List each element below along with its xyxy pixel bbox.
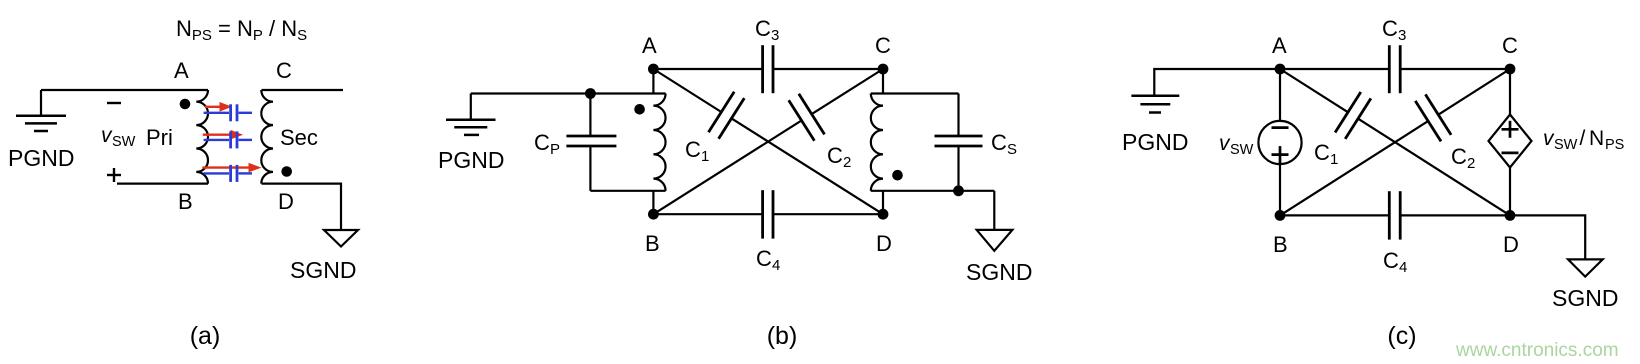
ground PGND (a) (16, 90, 66, 131)
svg-text:SW: SW (112, 134, 136, 150)
svg-text:PGND: PGND (8, 145, 74, 171)
wire C to winding (b) (882, 69, 884, 94)
svg-text:SGND: SGND (966, 259, 1032, 285)
right winding (b) (871, 94, 883, 191)
dependent source diamond (c) (1489, 115, 1532, 168)
svg-text:A: A (174, 58, 189, 83)
label C2 (b) (827, 143, 851, 171)
source minus sign (c) (1272, 126, 1289, 129)
svg-text:C: C (991, 130, 1007, 155)
svg-text:SGND: SGND (290, 257, 356, 283)
ground SGND (c) (1568, 259, 1603, 276)
node D dot (c) (1505, 210, 1516, 221)
svg-text:(c): (c) (1387, 322, 1416, 350)
capacitor C3 (b) (763, 45, 773, 93)
dependent source plus sign (c) (1502, 121, 1519, 138)
wire diagonal B-C with C2 gap (c) (1280, 69, 1510, 215)
label C1 (c) (1314, 140, 1338, 168)
label plus (a) (107, 168, 121, 182)
label CS (991, 130, 1017, 158)
interwinding capacitor 2 (a) (204, 131, 252, 148)
transformer primary winding (196, 90, 208, 184)
wire winding bottom to SGND branch (b) (871, 190, 995, 192)
label NPS = NP / NS (176, 16, 307, 44)
svg-text:NPS = NP / NS: NPS = NP / NS (176, 16, 307, 44)
wire primary bottom stub (117, 183, 208, 185)
wire diagonal A-D with C1 gap (b) (653, 69, 883, 214)
svg-text:www.cntronics.com: www.cntronics.com (1455, 340, 1619, 361)
wire C to dependent source (c) (1509, 69, 1511, 115)
label C3 (c) (1382, 16, 1406, 44)
node B dot (b) (648, 209, 659, 220)
svg-text:D: D (278, 189, 294, 214)
svg-text:1: 1 (701, 148, 709, 165)
wire winding top to CS (b) (871, 92, 959, 94)
svg-text:A: A (1272, 33, 1287, 58)
svg-text:C: C (1382, 16, 1398, 41)
interwinding capacitor 3 (a) (204, 165, 252, 182)
capacitor CS (935, 94, 983, 191)
node B dot (c) (1275, 210, 1286, 221)
svg-text:4: 4 (1399, 259, 1407, 276)
svg-text:B: B (645, 231, 660, 256)
node C dot (b) (878, 64, 889, 75)
wire secondary top stub (262, 89, 344, 91)
svg-text:C: C (756, 246, 772, 271)
wire secondary bottom to SGND (262, 184, 342, 230)
wire D to SGND (c) (1510, 215, 1585, 259)
svg-text:PGND: PGND (1122, 129, 1188, 155)
ground PGND (b) (446, 94, 496, 135)
label vSW (a) (101, 124, 136, 150)
svg-text:3: 3 (771, 27, 779, 44)
svg-text:C: C (755, 16, 771, 41)
label C2 (c) (1451, 144, 1475, 172)
svg-text:2: 2 (1467, 155, 1475, 172)
capacitor C4 (c) (1389, 191, 1400, 239)
svg-text:PS: PS (1605, 137, 1624, 153)
svg-text:Pri: Pri (146, 125, 173, 150)
wire PGND to primary top (41, 89, 208, 91)
wire winding to B (b) (652, 191, 654, 214)
svg-text:S: S (1007, 141, 1017, 158)
svg-text:3: 3 (1398, 27, 1406, 44)
capacitor C1 (c) (1335, 92, 1371, 139)
svg-text:B: B (1273, 232, 1288, 257)
svg-text:(b): (b) (767, 322, 798, 350)
wire A to winding (b) (652, 69, 654, 94)
wire A to PGND (c) (1154, 69, 1280, 96)
svg-text:D: D (1503, 232, 1519, 257)
wire A to source (c) (1279, 69, 1281, 121)
source plus sign (c) (1272, 146, 1289, 163)
wire down to SGND (b) (993, 191, 995, 230)
svg-text:C: C (827, 143, 843, 168)
wire CP bottom to winding (b) (590, 190, 665, 192)
svg-text:D: D (876, 231, 892, 256)
svg-text:B: B (178, 189, 193, 214)
left winding polarity dot (b) (634, 104, 645, 115)
secondary polarity dot (281, 166, 292, 177)
wire top edge A-C with C3 gap (c) (1280, 68, 1510, 70)
wire bottom edge B-D with C4 gap (b) (653, 213, 883, 215)
primary polarity dot (180, 99, 191, 110)
parasitic arrow 1 (a) (205, 102, 232, 112)
wire PGND feed (b) (471, 92, 591, 94)
svg-text:P: P (550, 141, 560, 158)
dependent source minus sign (c) (1502, 152, 1519, 155)
node A dot (b) (648, 64, 659, 75)
svg-text:C: C (875, 33, 891, 58)
label C1 (b) (685, 137, 709, 165)
junction dot CS bottom (b) (953, 185, 964, 196)
right winding polarity dot (b) (892, 170, 903, 181)
svg-text:PGND: PGND (438, 147, 504, 173)
wire junction to winding top (b) (590, 92, 665, 94)
label vSW (c) (1219, 132, 1254, 158)
svg-text:4: 4 (772, 257, 780, 274)
parasitic arrow 2 (a) (203, 130, 243, 140)
svg-text:C: C (1314, 140, 1330, 165)
ground PGND (c) (1131, 96, 1179, 113)
svg-text:C: C (276, 58, 292, 83)
wire diagonal B-C with C2 gap (b) (653, 69, 883, 214)
svg-text:A: A (642, 33, 657, 58)
svg-text:C: C (1451, 144, 1467, 169)
wire source to B (c) (1279, 164, 1281, 215)
label C3 (b) (755, 16, 779, 44)
svg-text:C: C (685, 137, 701, 162)
capacitor C3 (c) (1389, 45, 1400, 93)
svg-text:(a): (a) (190, 322, 221, 350)
parasitic arrow 3 (a) (202, 163, 261, 173)
wire diagonal A-D with C1 gap (c) (1280, 69, 1510, 215)
wire bottom edge B-D with C4 gap (c) (1280, 214, 1510, 216)
wire dependent source to D (c) (1509, 168, 1511, 216)
node A dot (c) (1275, 64, 1286, 75)
svg-text:2: 2 (843, 154, 851, 171)
capacitor C2 (b) (789, 94, 825, 141)
wire winding to D (b) (882, 191, 884, 214)
capacitor CP (566, 94, 616, 191)
label C4 (c) (1383, 248, 1407, 276)
node D dot (b) (878, 209, 889, 220)
wire top edge A-C with C3 gap (b) (653, 68, 883, 70)
svg-text:C: C (1383, 248, 1399, 273)
svg-text:/: / (1580, 127, 1586, 150)
svg-text:SW: SW (1554, 137, 1578, 153)
ground SGND (a) (324, 230, 358, 247)
svg-text:C: C (1502, 33, 1518, 58)
node C dot (c) (1505, 64, 1516, 75)
label minus (a) (107, 102, 121, 104)
label CP (534, 130, 560, 158)
capacitor C2 (c) (1415, 94, 1451, 141)
svg-text:SW: SW (1230, 142, 1254, 158)
label C4 (b) (756, 246, 780, 274)
svg-text:SGND: SGND (1552, 285, 1618, 311)
svg-text:Sec: Sec (280, 125, 318, 150)
transformer secondary winding (261, 90, 273, 184)
voltage source vSW circle (c) (1258, 121, 1301, 164)
capacitor C1 (b) (709, 92, 745, 139)
junction dot CP top (b) (585, 88, 596, 99)
capacitor C4 (b) (763, 190, 773, 238)
label vSW / NPS (c) (1543, 127, 1624, 153)
svg-text:N: N (1589, 127, 1604, 150)
interwinding capacitor 1 (a) (204, 104, 252, 121)
left winding (b) (653, 94, 665, 191)
ground SGND (b) (977, 230, 1013, 251)
svg-text:1: 1 (1330, 151, 1338, 168)
svg-text:C: C (534, 130, 550, 155)
